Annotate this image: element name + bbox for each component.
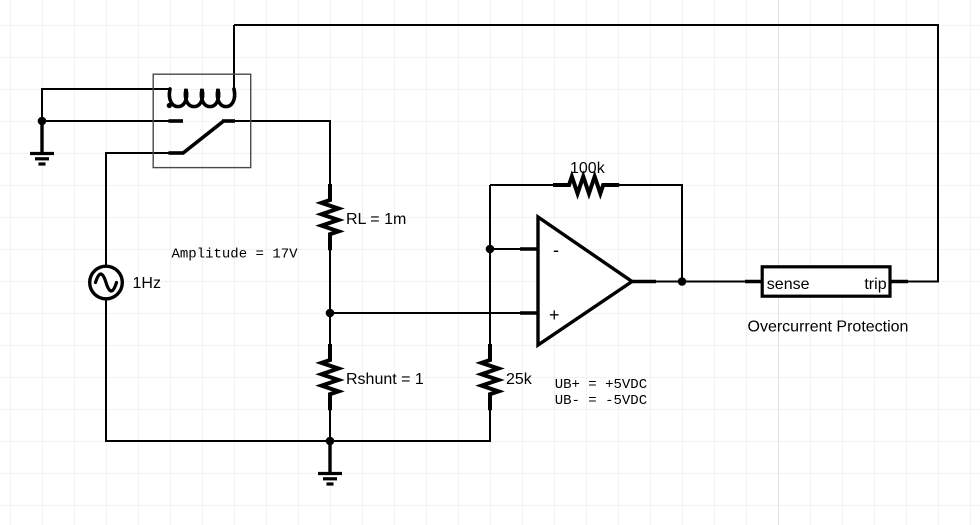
svg-text:Overcurrent Protection: Overcurrent Protection [748,319,909,336]
wire: RL bottom to node A [329,250,331,313]
wire: ground node to 25k bottom [330,410,490,441]
svg-text:-: - [553,240,559,260]
svg-text:UB- = -5VDC: UB- = -5VDC [555,393,647,409]
wire: top feedback rail from relay coil to right side [234,25,938,282]
wire: source top to relay common [106,153,169,266]
resistor RL [322,184,339,250]
relay switch NC contact pin [169,119,184,123]
ground (left, at relay NC net) [30,121,54,164]
junction dot: inverting input node [486,245,495,254]
svg-text:trip: trip [864,276,886,293]
svg-text:+: + [549,305,560,325]
wire: ground junction to relay NC contact [42,120,169,122]
relay switch arm [183,122,224,154]
relay switch common pin [169,151,184,155]
junction dot: output node [678,277,687,286]
resistor 25k [482,344,499,410]
svg-text:UB+ = +5VDC: UB+ = +5VDC [555,377,647,393]
junction dot: ground-NC node [38,117,47,126]
block: Overcurrent Protection (sense/trip) [745,267,908,296]
wire: relay coil right terminal up to top rail [233,25,235,92]
wire: 25k top to inverting input node [489,185,491,344]
wire: relay switched contact to RL top [234,121,330,184]
svg-text:Amplitude = 17V: Amplitude = 17V [172,247,299,263]
op-amp U1 [520,217,656,345]
svg-text:100k: 100k [570,160,606,177]
wire: inverting node to op-amp minus input [490,248,521,250]
svg-text:RL = 1m: RL = 1m [346,211,406,228]
svg-text:Rshunt = 1: Rshunt = 1 [346,371,424,388]
relay coil polarity dot [167,103,172,108]
svg-text:1Hz: 1Hz [133,275,161,292]
resistor Rshunt [322,344,339,410]
wire: Rshunt bottom to ground node [329,410,331,441]
relay coil L1 [169,89,234,107]
svg-text:sense: sense [767,276,810,293]
junction dot: node A (RL/Rshunt/plus input) [326,309,335,318]
resistor 100k (feedback) [553,177,619,194]
wire: coil left terminal to left column [42,89,170,121]
wire: 100k right to output node [618,185,682,282]
wire: source bottom along bottom to ground node [106,299,330,441]
ground (bottom, at shunt net) [318,441,342,484]
svg-text:25k: 25k [506,371,533,388]
wire: op-amp output to sense input [655,281,745,283]
voltage source V1 [90,266,123,299]
relay body box [153,74,251,167]
relay switch NO contact pin [222,119,235,123]
junction dot: bottom ground node [326,437,335,446]
wire: feedback left segment to 100k [490,184,554,186]
wire: node A to op-amp plus input [330,312,521,314]
wire: node A down to Rshunt top [329,313,331,344]
